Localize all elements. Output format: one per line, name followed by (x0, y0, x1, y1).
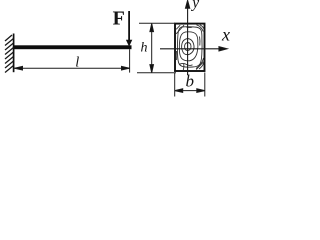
h dimension extension line top (139, 22, 175, 24)
svg-text:x: x (221, 25, 230, 45)
cross-section square (175, 24, 205, 71)
extension line right of beam (129, 49, 131, 72)
svg-text:F: F (113, 7, 125, 29)
force F arrow (126, 11, 132, 47)
y axis (186, 1, 190, 76)
b dimension extension line right (204, 73, 206, 97)
fixed wall hatching (5, 35, 14, 73)
wall line (13, 34, 15, 73)
dimension line l (15, 66, 130, 70)
h dimension extension line bottom (137, 72, 176, 74)
svg-text:b: b (186, 72, 195, 91)
svg-text:h: h (141, 40, 148, 55)
beam (14, 45, 132, 49)
h dimension line (150, 24, 154, 73)
x axis (160, 47, 227, 51)
wood grain (176, 25, 203, 70)
b dimension extension line left (174, 73, 176, 97)
b dimension line (175, 89, 205, 93)
svg-text:y: y (190, 0, 199, 11)
svg-text:l: l (75, 55, 79, 71)
